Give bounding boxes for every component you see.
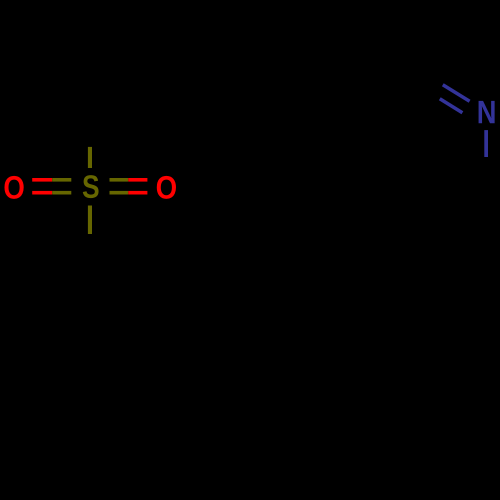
atom N (nitrogen label)	[479, 101, 495, 123]
bond S=O1 (left double bond, S half olive)	[52, 178, 71, 195]
bond S=O1 (left double bond, O half red)	[32, 178, 52, 195]
bond C2=N main line carbon half (black, invisible on black background)	[399, 59, 443, 85]
bond N-C (visible blue half below N)	[484, 130, 488, 157]
bond C=N inner line (visible blue half near N)	[440, 99, 463, 113]
bond N-C3 carbon half (black, invisible on black background)	[484, 157, 488, 203]
atom O1 (left oxygen label)	[4, 176, 23, 199]
bond S-C(ring) (visible olive half below S)	[88, 206, 92, 235]
bond S=O2 (right double bond, S half olive)	[110, 178, 129, 195]
bond S-C1 carbon half (black, invisible on black background)	[88, 234, 92, 282]
bond CH3-S carbon half (black, invisible on black background)	[88, 108, 92, 147]
bond C2=N inner line carbon half (black, invisible on black background)	[417, 85, 440, 99]
atom O2 (right oxygen label)	[157, 176, 176, 199]
bond S=O2 (right double bond, O half red)	[128, 178, 147, 195]
bond C=N main line (visible blue half near N)	[443, 85, 470, 101]
atom S (sulfur label)	[83, 175, 99, 198]
bond S-CH3 (visible olive half above S)	[88, 147, 92, 168]
